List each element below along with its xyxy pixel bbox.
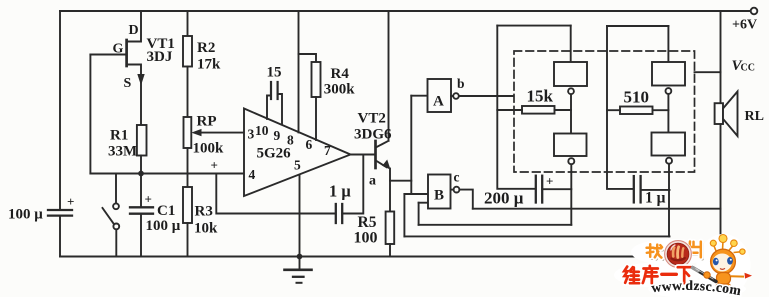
svg-text:VT2: VT2 (358, 111, 386, 127)
svg-text:RL: RL (745, 109, 764, 124)
svg-text:1 μ: 1 μ (329, 182, 351, 201)
svg-text:4: 4 (249, 167, 256, 182)
svg-text:a: a (369, 174, 376, 189)
svg-text:CC: CC (741, 63, 755, 74)
svg-text:R5: R5 (358, 214, 377, 231)
svg-text:10: 10 (255, 123, 269, 138)
svg-text:100: 100 (354, 230, 378, 247)
svg-text:S: S (124, 76, 132, 91)
svg-text:G: G (113, 42, 124, 57)
svg-text:1 μ: 1 μ (645, 190, 666, 207)
svg-text:3: 3 (248, 127, 255, 142)
svg-text:C1: C1 (157, 203, 175, 219)
svg-text:9: 9 (274, 128, 281, 143)
svg-text:A: A (433, 94, 444, 110)
svg-text:200 μ: 200 μ (484, 189, 524, 208)
svg-text:6: 6 (306, 137, 313, 152)
svg-text:+6V: +6V (732, 18, 757, 33)
svg-text:3DG6: 3DG6 (354, 127, 392, 143)
svg-text:R4: R4 (331, 66, 350, 82)
svg-text:R2: R2 (197, 40, 215, 56)
svg-text:5: 5 (294, 158, 301, 173)
svg-text:3DJ: 3DJ (147, 49, 173, 65)
svg-text:10k: 10k (194, 221, 218, 237)
svg-text:15: 15 (267, 65, 282, 81)
svg-text:300k: 300k (324, 82, 356, 98)
svg-text:5G26: 5G26 (257, 146, 292, 162)
svg-text:33M: 33M (108, 144, 137, 160)
svg-text:510: 510 (624, 88, 650, 107)
svg-text:17k: 17k (197, 57, 221, 73)
svg-text:R1: R1 (110, 128, 128, 144)
svg-text:b: b (457, 76, 465, 91)
svg-text:7: 7 (324, 143, 331, 158)
svg-text:8: 8 (287, 133, 294, 148)
svg-text:R3: R3 (195, 204, 213, 220)
svg-text:+: + (67, 194, 74, 209)
svg-text:B: B (434, 188, 444, 204)
svg-text:c: c (454, 170, 460, 185)
svg-text:+: + (145, 192, 152, 207)
svg-text:+: + (211, 158, 218, 173)
svg-text:100 μ: 100 μ (8, 207, 43, 223)
svg-text:+: + (546, 174, 553, 189)
svg-text:100 μ: 100 μ (146, 218, 181, 234)
svg-text:100k: 100k (193, 141, 225, 157)
svg-text:15k: 15k (527, 87, 554, 106)
svg-text:D: D (129, 23, 139, 38)
svg-text:RP: RP (197, 114, 217, 130)
